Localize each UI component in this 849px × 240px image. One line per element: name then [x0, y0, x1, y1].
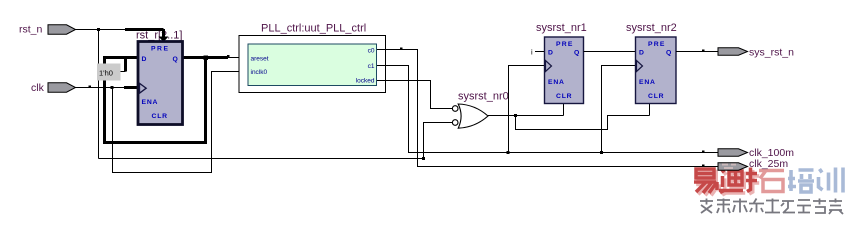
svg-text:CLR: CLR: [152, 113, 168, 120]
svg-text:areset: areset: [251, 56, 269, 63]
wire nr1 Q to nr2 D: [584, 51, 636, 53]
svg-text:PRE: PRE: [556, 41, 574, 48]
output pin clk_100m: [718, 147, 794, 159]
svg-text:Q: Q: [574, 50, 579, 57]
svg-text:ENA: ENA: [548, 79, 565, 86]
wire bus loop bottom (bold): [103, 141, 206, 144]
wire Q output row (bold): [183, 56, 229, 59]
tick on clk_100m wire: [702, 151, 705, 153]
wire rst_n long bottom run: [99, 158, 424, 160]
wire clk pin run: [76, 87, 125, 89]
wire CLR riser nr2: [649, 104, 651, 116]
svg-text:D: D: [639, 50, 644, 57]
tick on clk_25m wire: [702, 165, 705, 167]
svg-text:PLL_ctrl:uut_PLL_ctrl: PLL_ctrl:uut_PLL_ctrl: [261, 23, 366, 35]
svg-text:locked: locked: [356, 78, 375, 85]
register sysrst_nr2: [626, 22, 677, 104]
wire c1 out: [377, 66, 718, 153]
wire CLR riser nr1: [563, 104, 565, 116]
svg-text:Q: Q: [666, 50, 671, 57]
svg-text:PRE: PRE: [648, 41, 666, 48]
register sysrst_nr1: [536, 22, 587, 104]
svg-text:D: D: [548, 50, 553, 57]
svg-text:D: D: [142, 56, 147, 63]
wire clk down branch: [113, 72, 250, 173]
nor gate sysrst_nr0: [452, 91, 508, 129]
tick on areset wire: [227, 55, 230, 57]
node rst_n branch: [97, 28, 100, 31]
tick on sys_rst_n wire: [702, 50, 705, 52]
node junction at 423,158: [422, 157, 425, 160]
svg-text:c1: c1: [368, 63, 375, 70]
node junction clock riser 2: [600, 151, 603, 154]
svg-text:1'h0: 1'h0: [99, 69, 113, 78]
svg-text:rst_n: rst_n: [19, 24, 43, 36]
wire clk bold segment into clock pin: [124, 86, 138, 89]
svg-text:ENA: ENA: [142, 99, 159, 106]
node bus loop junction: [204, 56, 209, 61]
wire gate output to CLR net: [488, 115, 564, 117]
wire PRE drop arrow: [162, 29, 165, 37]
wire locked out: [377, 81, 452, 109]
wire clock riser to nr1: [509, 66, 545, 153]
wire riser to gate lower input: [424, 123, 453, 159]
svg-text:inclk0: inclk0: [251, 69, 268, 76]
svg-text:clk_25m: clk_25m: [749, 158, 788, 170]
node junction clock riser 1: [507, 151, 510, 154]
wire bus loop left vertical (bold): [103, 57, 106, 144]
wire Q to areset (thin): [228, 57, 249, 59]
wire bus D input row (bold): [103, 56, 138, 59]
svg-text:c0: c0: [368, 48, 375, 55]
output pin clk_25m: [718, 158, 788, 170]
input pin clk: [31, 82, 76, 94]
svg-text:ENA: ENA: [639, 79, 656, 86]
wire rst_n pin to PRE (thin part): [76, 29, 126, 31]
wire nr2 Q to output pin: [676, 51, 718, 53]
svg-text:sysrst_nr1: sysrst_nr1: [536, 22, 587, 34]
node junction on gate output: [514, 114, 517, 117]
register rst_r[2..1]: [138, 42, 183, 125]
wire rst_n vertical branch down: [98, 30, 100, 159]
constant 1'h0: [97, 64, 126, 81]
svg-text:rst_r[2..1]: rst_r[2..1]: [136, 30, 182, 42]
wire clock riser to nr2: [602, 66, 636, 153]
svg-text:clk: clk: [31, 82, 45, 94]
wire c0 out: [377, 50, 718, 167]
tick on c0 wire: [400, 48, 403, 50]
node clk branch: [111, 86, 114, 89]
svg-text:CLR: CLR: [648, 93, 664, 100]
wire rst_n bold segment into PRE arrow: [125, 28, 164, 31]
wire CLR staircase: [516, 116, 650, 130]
svg-text:sysrst_nr2: sysrst_nr2: [626, 22, 677, 34]
svg-text:CLR: CLR: [556, 93, 572, 100]
input pin rst_n: [19, 24, 76, 36]
PLL block PLL_ctrl:uut_PLL_ctrl: [239, 23, 386, 93]
tick mark on clk wire: [89, 86, 92, 88]
svg-text:Q: Q: [173, 56, 178, 63]
svg-text:sysrst_nr0: sysrst_nr0: [458, 91, 509, 103]
wire constant riser (bold): [124, 58, 127, 72]
wire bus loop right vertical (bold): [204, 58, 207, 145]
svg-text:PRE: PRE: [151, 46, 169, 53]
output pin sys_rst_n: [718, 47, 794, 59]
svg-text:sys_rst_n: sys_rst_n: [749, 47, 794, 59]
watermark logo 易迪拓培训: [694, 168, 843, 215]
